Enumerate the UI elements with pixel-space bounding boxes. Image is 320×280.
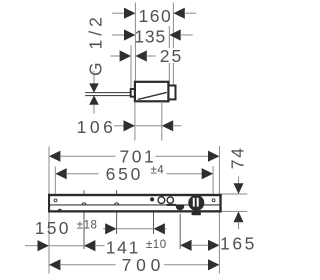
bottom view: right main extension line [218, 146, 220, 274]
G1/2 dim line upper segment [93, 71, 95, 84]
dim 135 right arrowhead [169, 29, 180, 40]
dim 135 left tail [112, 34, 125, 36]
svg-text:650: 650 [106, 164, 144, 184]
svg-text:160: 160 [139, 6, 173, 26]
dim 150 connecting line [117, 228, 154, 230]
G1/2 dim down arrowhead [89, 83, 99, 92]
dim 106 right arrowhead [162, 120, 173, 131]
dim 106 connecting line [135, 125, 162, 127]
dim 106 left tail [114, 125, 124, 127]
dim 135 left arrowhead [124, 29, 135, 40]
wall bar middle rail line [50, 204, 219, 206]
dim 141 left arrowhead [38, 240, 49, 251]
dim 165 left extension line [179, 214, 181, 249]
holder clip below bar [192, 212, 202, 215]
dim 141 right arrowhead [84, 240, 95, 251]
dim 135 right tail [180, 34, 193, 36]
dim 160 left tail [112, 12, 125, 14]
holder rail thick segment [167, 204, 177, 206]
wall bar bottom edge [48, 210, 222, 212]
holder grip wheel [188, 195, 204, 211]
svg-text:25: 25 [160, 46, 183, 66]
wall bar right end cap [219, 194, 221, 213]
dim 25 right tail [146, 55, 156, 57]
grip wheel slot 2 [197, 198, 199, 207]
dim 106 left arrowhead [124, 120, 135, 131]
dim 165 right arrowhead [208, 240, 219, 251]
wall bar left end cap [48, 194, 50, 213]
wall bar body [48, 194, 222, 213]
svg-text:G 1/2: G 1/2 [86, 13, 106, 76]
screw mark 2 bump [115, 203, 119, 205]
dim 141 connecting line [49, 245, 84, 247]
dim 25 left tail [111, 55, 121, 57]
dim 74 top extension line [222, 193, 248, 195]
G1/2 dim up arrowhead [89, 95, 99, 104]
bottom view: left main extension line [48, 147, 50, 274]
dim 650 right extension line [212, 166, 214, 194]
screw line 2 extension [116, 190, 118, 234]
dim 74 up arrowhead [234, 211, 244, 222]
dim 700 left arrowhead [49, 259, 60, 270]
dim 141 left tail [25, 245, 38, 247]
filled hole [150, 197, 154, 201]
svg-text:150: 150 [35, 218, 71, 238]
side view: wall bracket [168, 86, 175, 100]
dim 650 left arrowhead [55, 168, 66, 179]
left end bottom bump [58, 209, 62, 211]
dim 650 right arrowhead [202, 168, 213, 179]
side view: diagonal lever line [138, 92, 167, 99]
extension line L1 (nub front, left end of dim 25) [130, 45, 132, 89]
screw line 1 extension [83, 190, 85, 249]
dim 160 left arrowhead [124, 8, 135, 19]
dim 106 left extension line [134, 102, 136, 141]
dim 74 bottom extension line [222, 210, 248, 212]
dim 141 right tail [95, 245, 105, 247]
dim 701 left arrowhead [49, 151, 60, 162]
dim 165 line [191, 244, 209, 246]
dim 74 upper line [238, 176, 240, 183]
dim 25 label background [159, 48, 185, 63]
svg-text:74: 74 [227, 146, 247, 169]
svg-text:700: 700 [122, 255, 166, 275]
wall bar top edge [48, 194, 222, 196]
open circle B [167, 197, 173, 203]
dim 165 left arrowhead [180, 240, 191, 251]
dim 150 right extension line [153, 213, 155, 235]
dim 650 line left segment [66, 173, 99, 175]
svg-text:±10: ±10 [146, 239, 167, 251]
svg-text:±4: ±4 [151, 165, 165, 177]
dim 160 right tail [184, 12, 196, 14]
dim 25 left arrowhead [120, 50, 131, 61]
dim 106 right extension line [161, 102, 163, 141]
side view: inlet nub [131, 89, 136, 97]
G1/2 pipe line top [85, 92, 131, 94]
dim 700 line left segment [60, 264, 116, 266]
dim 701 right arrowhead [208, 151, 219, 162]
screw mark 1 bump [82, 203, 86, 205]
svg-text:165: 165 [220, 234, 257, 254]
dim 700 line right segment [164, 264, 209, 266]
dim 650 line right segment [167, 173, 203, 175]
extension line R2 (wall plane, right end of dim 160) [172, 3, 174, 86]
dim 160 right arrowhead [173, 8, 184, 19]
dim 650 left extension line [54, 167, 56, 194]
side view: valve body [135, 82, 169, 102]
dim 74 lower line [238, 222, 240, 230]
dim 701 line left segment [60, 155, 116, 157]
G1/2 dim line lower segment [93, 105, 95, 114]
dim 25 right arrowhead [135, 50, 146, 61]
svg-text:106: 106 [77, 117, 117, 137]
dim 150 right arrowhead [154, 223, 165, 234]
extension line R1 (right end of dim 135) [168, 26, 170, 86]
svg-text:135: 135 [134, 26, 166, 46]
dim 74 down arrowhead [234, 183, 244, 194]
dim 150 left arrowhead [105, 223, 116, 234]
dim 106 right tail [173, 125, 182, 127]
svg-text:±18: ±18 [77, 219, 98, 231]
dim 700 right arrowhead [208, 259, 219, 270]
open circle A [158, 197, 165, 204]
dim 150 right tail [164, 228, 167, 230]
G1/2 pipe line bottom [85, 95, 131, 97]
dim 150 left tail [103, 228, 106, 230]
right tiny hole [212, 199, 215, 202]
left small hole [54, 199, 57, 202]
extension line L2 (front face of body, left end of dims 160/135) [134, 3, 136, 82]
holder hook blob [176, 205, 184, 210]
grip wheel slot 1 [193, 198, 195, 207]
dim 701 line right segment [156, 155, 209, 157]
